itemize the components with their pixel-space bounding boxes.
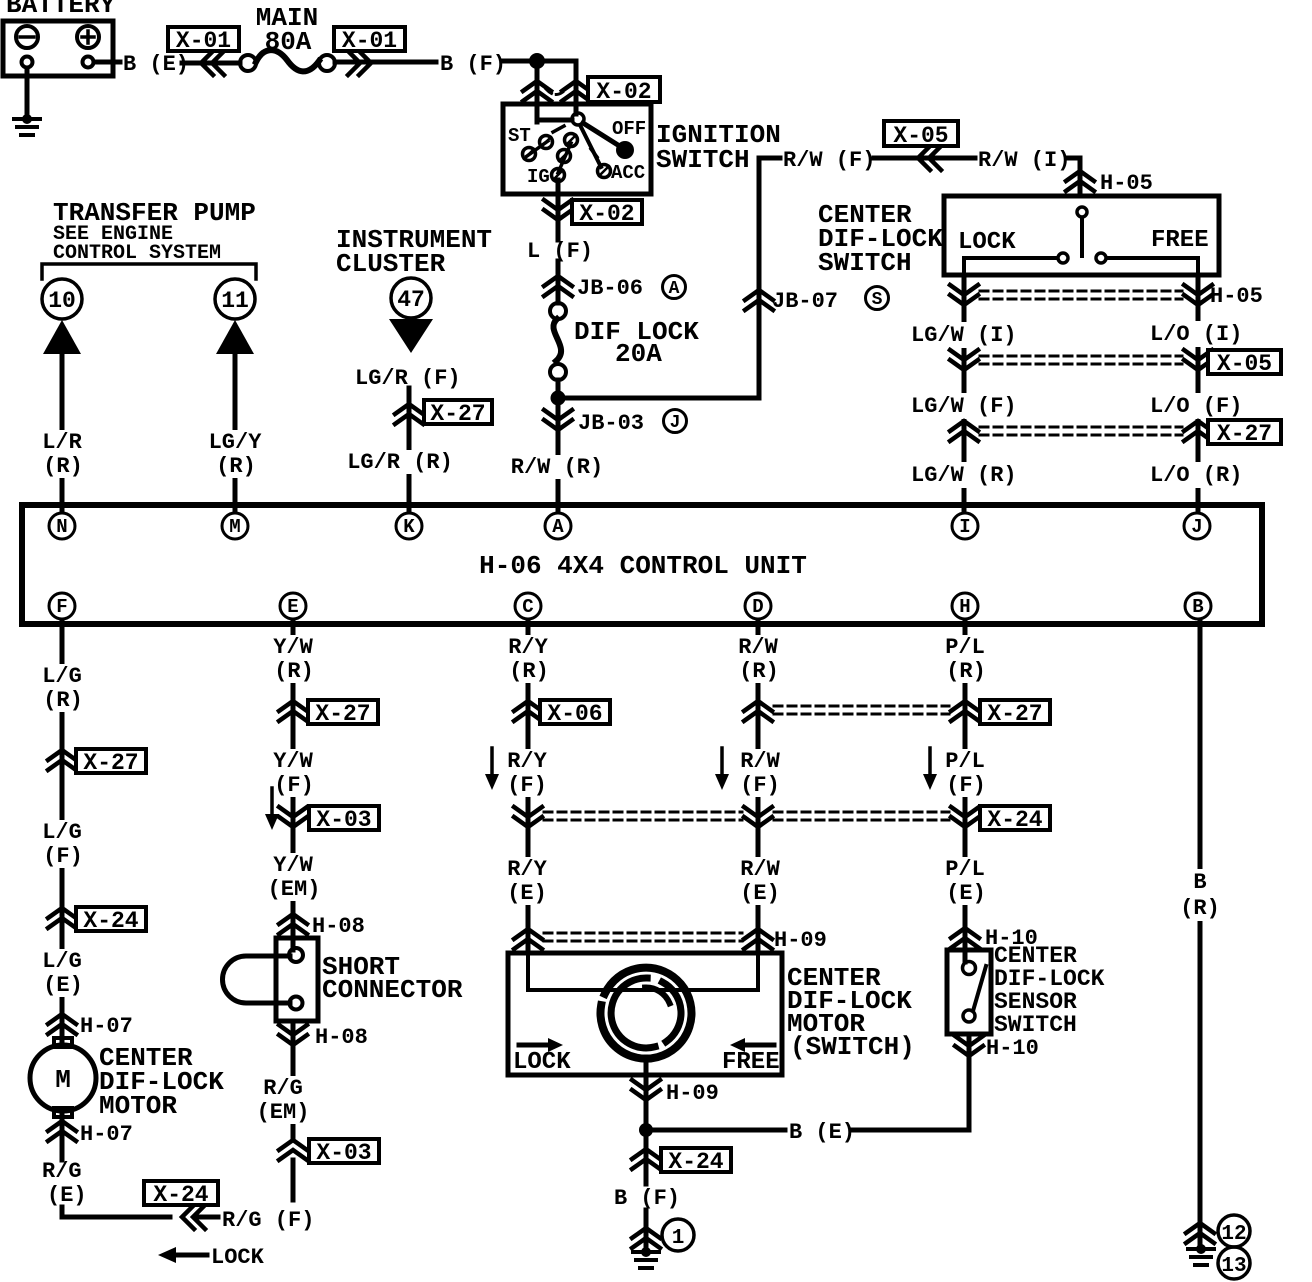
- wire L/O(I) down: [0, 0, 1, 1]
- svg-text:R/Y: R/Y: [508, 635, 548, 660]
- connector H-09 (motor bottom): [632, 1080, 719, 1106]
- wire LG/W(R) segment: [0, 0, 1, 1]
- wire to fuse DIF LOCK: [0, 0, 1, 1]
- label SHORT CONNECTOR: [322, 952, 463, 1005]
- connector 11: [215, 279, 255, 319]
- wire B(E) to fuse: [182, 61, 240, 66]
- connector JB-07 S: [745, 287, 889, 315]
- svg-text:Y/W: Y/W: [273, 635, 313, 660]
- arrow up to 11: [216, 320, 254, 354]
- label CENTER DIF-LOCK SENSOR SWITCH: [994, 943, 1105, 1038]
- wire L/G(F): [0, 0, 1, 1]
- svg-text:X-24: X-24: [987, 807, 1042, 833]
- connector JB-06 A: [544, 276, 686, 302]
- label IGNITION SWITCH: [656, 120, 781, 175]
- arrow LOCK (motor box): [513, 1038, 571, 1076]
- wire LG/R to pin K: [407, 388, 412, 512]
- connector X-03 (R/G wire): [279, 1139, 379, 1166]
- connector pair row2 (C column): [514, 807, 542, 827]
- ground (right): [1188, 1244, 1214, 1265]
- wire to pin J: [0, 0, 1, 1]
- connector X-24 row2 (H column): [951, 806, 1050, 833]
- ground (battery): [14, 114, 40, 135]
- connector X-27 pair (right): [950, 420, 1281, 447]
- wire R/W(I) to dif-lock switch: [1068, 158, 1080, 196]
- ground (center): [633, 1247, 659, 1268]
- wire L/R to pin N: [60, 354, 65, 512]
- connector X-02 (bottom): [544, 200, 642, 227]
- svg-text:X-06: X-06: [547, 701, 602, 727]
- connector X-01 (right): [334, 27, 405, 75]
- dashed pair row1: [774, 706, 949, 714]
- svg-text:X-27: X-27: [315, 701, 370, 727]
- svg-text:H: H: [959, 596, 970, 618]
- label L (F): [527, 239, 593, 264]
- connector ground 1: [632, 1219, 694, 1251]
- label L/G (E): [42, 949, 83, 998]
- svg-text:LG/W (F): LG/W (F): [911, 394, 1017, 419]
- wire LG/W(F) segment: [0, 0, 1, 1]
- motor rotary contact rings: [600, 968, 691, 1059]
- svg-text:H-05: H-05: [1100, 171, 1153, 196]
- pin C: [515, 593, 541, 619]
- wire motor output: [644, 1057, 649, 1148]
- connector H-08 (top): [279, 914, 365, 939]
- arrow down (E column): [265, 788, 279, 830]
- dashed pair row3: [544, 933, 742, 941]
- svg-text:J: J: [670, 413, 681, 433]
- connector H-05 (top): [1066, 171, 1153, 196]
- svg-text:A: A: [552, 516, 564, 538]
- pin A: [545, 513, 571, 539]
- svg-text:H-08: H-08: [312, 914, 365, 939]
- svg-text:H-06 4X4 CONTROL UNIT: H-06 4X4 CONTROL UNIT: [479, 551, 807, 581]
- wire R/G(E) to X-24: [62, 1207, 170, 1217]
- wire Y/W(F): [0, 0, 1, 1]
- dashed pair row2: [544, 812, 949, 820]
- svg-text:IG: IG: [527, 166, 550, 188]
- svg-text:M: M: [229, 516, 240, 538]
- svg-text:11: 11: [221, 288, 249, 314]
- label SEE ENGINE CONTROL SYSTEM: [53, 223, 221, 265]
- label B (E): [123, 52, 189, 77]
- wire to ignition junction: [503, 59, 537, 64]
- connector H-09 (C column): [514, 929, 542, 949]
- svg-text:X-02: X-02: [596, 79, 651, 105]
- wire junction to R/W(F) riser: [558, 158, 780, 398]
- svg-text:X-03: X-03: [316, 807, 371, 833]
- svg-text:X-02: X-02: [579, 201, 634, 227]
- svg-text:SWITCH: SWITCH: [994, 1012, 1077, 1038]
- svg-text:JB-07: JB-07: [772, 289, 838, 314]
- connector X-24 (F column): [48, 907, 146, 934]
- wire B(E) to motor junction: [648, 1128, 785, 1133]
- svg-text:LG/W (R): LG/W (R): [911, 463, 1017, 488]
- svg-text:MOTOR: MOTOR: [99, 1091, 177, 1121]
- connector H-07 (bottom): [48, 1121, 133, 1147]
- label Y/W (F): [273, 749, 314, 798]
- svg-text:LG/W (I): LG/W (I): [911, 323, 1017, 348]
- bracket transfer pump: [42, 264, 256, 279]
- svg-text:P/L: P/L: [945, 857, 985, 882]
- svg-text:X-24: X-24: [668, 1149, 723, 1175]
- svg-text:LG/Y: LG/Y: [209, 430, 263, 455]
- svg-text:LOCK: LOCK: [958, 229, 1016, 256]
- fuse MAIN 80A: [240, 3, 335, 71]
- svg-text:H-07: H-07: [80, 1014, 133, 1039]
- connector X-27 row1 (D column): [744, 701, 772, 721]
- svg-text:H-10: H-10: [986, 1036, 1039, 1061]
- svg-text:(F): (F): [946, 773, 986, 798]
- svg-text:X-24: X-24: [83, 908, 138, 934]
- svg-text:LG/R (R): LG/R (R): [347, 450, 453, 475]
- svg-text:A: A: [669, 279, 680, 299]
- label L/O (I): [1147, 321, 1245, 347]
- label L/O (F): [1147, 393, 1245, 419]
- label R/G (F): [222, 1208, 314, 1233]
- svg-text:CONTROL SYSTEM: CONTROL SYSTEM: [53, 242, 221, 265]
- svg-text:X-27: X-27: [83, 750, 138, 776]
- label R/Y (E): [507, 857, 547, 906]
- svg-text:R/W (R): R/W (R): [511, 455, 603, 480]
- svg-text:(E): (E): [47, 1183, 87, 1208]
- wire battery negative to ground: [25, 68, 30, 119]
- wire fuse output: [556, 380, 561, 398]
- label L/R (R): [42, 430, 83, 479]
- arrow down (C column): [485, 748, 499, 790]
- svg-text:LOCK: LOCK: [513, 1049, 571, 1076]
- svg-text:X-27: X-27: [430, 401, 485, 427]
- svg-text:JB-03: JB-03: [578, 411, 644, 436]
- svg-text:L/R: L/R: [42, 430, 82, 455]
- label LG/W (R): [908, 462, 1020, 488]
- svg-text:B: B: [1192, 596, 1203, 618]
- connector H-09 (D column): [744, 928, 827, 953]
- short connector: [222, 938, 318, 1021]
- svg-text:M: M: [55, 1065, 71, 1095]
- junction B(F) node: [529, 53, 545, 69]
- wire L/O(R) segment: [0, 0, 1, 1]
- wire LG/Y to pin M: [233, 354, 238, 512]
- label LG/Y (R): [209, 430, 263, 479]
- wire R/Y from pin C: [526, 620, 531, 953]
- pin K: [396, 513, 422, 539]
- label R/Y (F): [507, 749, 547, 798]
- arrow down (H column): [923, 748, 937, 790]
- svg-text:R/G (F): R/G (F): [222, 1208, 314, 1233]
- svg-text:CONNECTOR: CONNECTOR: [322, 975, 463, 1005]
- svg-text:R/G: R/G: [42, 1159, 82, 1184]
- label TRANSFER PUMP: [53, 198, 256, 228]
- label CENTER DIF-LOCK MOTOR (SWITCH): [787, 963, 915, 1062]
- label R/Y (R): [508, 635, 549, 684]
- label LG/W (F): [908, 393, 1020, 419]
- svg-text:D: D: [752, 596, 763, 618]
- svg-text:(R): (R): [274, 659, 314, 684]
- junction B(E)/B(F) node: [639, 1123, 653, 1137]
- svg-text:1: 1: [672, 1227, 685, 1250]
- connector X-01 (left): [168, 27, 239, 75]
- connector X-27 (cluster): [395, 400, 492, 427]
- wire B(R) from pin B: [1198, 620, 1203, 1247]
- wire L/G from pin F: [60, 620, 65, 1042]
- connector 47: [391, 278, 431, 318]
- label L/O (R): [1147, 462, 1245, 488]
- connector H-10 (bottom): [955, 1036, 1039, 1061]
- label R/G (E): [42, 1159, 87, 1208]
- svg-text:FREE: FREE: [1151, 227, 1209, 254]
- svg-text:R/W (I): R/W (I): [978, 148, 1070, 173]
- wire IG terminal down: [556, 180, 561, 240]
- svg-text:S: S: [872, 290, 883, 310]
- svg-text:R/W: R/W: [740, 857, 780, 882]
- arrow LOCK (left): [158, 1245, 265, 1270]
- svg-text:H-09: H-09: [774, 928, 827, 953]
- pin B: [1185, 593, 1211, 619]
- battery: [3, 0, 116, 76]
- svg-text:(R): (R): [946, 659, 986, 684]
- svg-text:(E): (E): [740, 881, 780, 906]
- center dif-lock motor switch box: [508, 953, 782, 1075]
- svg-text:K: K: [403, 516, 415, 538]
- svg-text:I: I: [959, 516, 970, 538]
- svg-text:(EM): (EM): [257, 1100, 310, 1125]
- svg-text:L/G: L/G: [42, 664, 82, 689]
- label L/G (F): [42, 820, 83, 869]
- arrow down (D column): [715, 748, 729, 790]
- connector X-05 pair: [950, 350, 1281, 377]
- label R/W (R): [511, 455, 603, 480]
- label CENTER DIF-LOCK MOTOR: [99, 1043, 224, 1121]
- svg-text:(R): (R): [509, 659, 549, 684]
- svg-text:B (E): B (E): [123, 52, 189, 77]
- pin M: [222, 513, 248, 539]
- svg-text:OFF: OFF: [612, 118, 646, 140]
- label B (F): [440, 52, 506, 77]
- svg-text:R/W: R/W: [738, 635, 778, 660]
- wire battery positive to B(E): [94, 60, 120, 65]
- svg-text:(R): (R): [43, 688, 83, 713]
- connector X-03 (E column): [279, 806, 379, 833]
- label CENTER DIF-LOCK SWITCH: [818, 200, 943, 278]
- label P/L (E): [945, 857, 986, 906]
- label LG/R (R): [347, 450, 453, 475]
- arrow up to 10: [43, 320, 81, 354]
- svg-text:X-27: X-27: [987, 701, 1042, 727]
- svg-text:X-01: X-01: [176, 28, 231, 54]
- wire R/G(F) stub: [291, 1160, 296, 1200]
- svg-text:BATTERY: BATTERY: [6, 0, 116, 20]
- connector JB-03 J: [544, 410, 687, 437]
- junction fuse/R-W node: [551, 391, 566, 406]
- svg-text:J: J: [1191, 516, 1202, 538]
- connector X-27 (F column): [48, 749, 146, 776]
- svg-text:(R): (R): [1180, 896, 1220, 921]
- connector H-05 pair below switch: [950, 284, 1263, 309]
- svg-text:SWITCH: SWITCH: [656, 145, 750, 175]
- svg-text:(R): (R): [43, 454, 83, 479]
- svg-text:X-05: X-05: [1217, 351, 1272, 377]
- svg-text:L/G: L/G: [42, 949, 82, 974]
- wire L/O(F) segment: [0, 0, 1, 1]
- svg-text:Y/W: Y/W: [273, 749, 313, 774]
- svg-text:20A: 20A: [615, 339, 662, 369]
- label LG/R (F): [355, 366, 461, 391]
- svg-text:(E): (E): [507, 881, 547, 906]
- wire to L(F): [0, 0, 1, 1]
- connector X-06: [514, 700, 610, 727]
- wire Y/W from pin E: [291, 620, 296, 938]
- label Y/W (R): [273, 635, 314, 684]
- label B (E): [789, 1120, 855, 1145]
- fuse DIF LOCK 20A: [550, 303, 699, 380]
- wire LG/W segment: [962, 276, 967, 512]
- wire R/G(E): [60, 1112, 65, 1160]
- label P/L (R): [945, 635, 986, 684]
- pin D: [745, 593, 771, 619]
- label L/G (R): [42, 664, 83, 713]
- label R/W (E): [740, 857, 780, 906]
- svg-text:L/O (I): L/O (I): [1150, 322, 1242, 347]
- wire R/W from pin D: [756, 620, 761, 953]
- label Y/W (EM): [268, 853, 321, 902]
- svg-text:R/Y: R/Y: [507, 749, 547, 774]
- wire L(F) down: [556, 261, 561, 303]
- control unit H-06 4X4: [22, 505, 1262, 624]
- arrow down from 47: [389, 319, 433, 353]
- svg-text:X-03: X-03: [316, 1140, 371, 1166]
- connector H-07 (top): [48, 1014, 133, 1039]
- wire Y/W(EM): [0, 0, 1, 1]
- svg-text:(R): (R): [739, 659, 779, 684]
- svg-text:H-05: H-05: [1210, 284, 1263, 309]
- wire into short connector: [291, 938, 296, 950]
- svg-text:X-24: X-24: [153, 1182, 208, 1208]
- svg-text:(F): (F): [43, 844, 83, 869]
- svg-text:12: 12: [1221, 1223, 1246, 1246]
- svg-text:(E): (E): [946, 881, 986, 906]
- wire junction into ignition switch: [537, 61, 576, 122]
- label LG/W (I): [908, 322, 1020, 348]
- wire B(F) to ground: [644, 1210, 649, 1250]
- wire P/L from pin H: [963, 620, 968, 962]
- pin H: [952, 593, 978, 619]
- wire B(F): [644, 1148, 649, 1184]
- svg-text:(EM): (EM): [268, 877, 321, 902]
- wire B(F): [335, 60, 436, 65]
- center dif-lock switch SW2: [944, 196, 1219, 276]
- wire LG/W(I) down: [0, 0, 1, 1]
- connector 10: [42, 279, 82, 319]
- svg-text:P/L: P/L: [945, 635, 985, 660]
- pin I: [952, 513, 978, 539]
- svg-text:(F): (F): [740, 773, 780, 798]
- svg-text:P/L: P/L: [945, 749, 985, 774]
- svg-text:X-27: X-27: [1217, 421, 1272, 447]
- svg-text:E: E: [287, 596, 298, 618]
- svg-text:X-01: X-01: [342, 28, 397, 54]
- svg-text:B (F): B (F): [440, 52, 506, 77]
- svg-text:L/G: L/G: [42, 820, 82, 845]
- svg-text:(R): (R): [216, 454, 256, 479]
- connector X-02 (top): [523, 77, 660, 105]
- svg-text:L/O (R): L/O (R): [1150, 463, 1242, 488]
- svg-text:N: N: [56, 516, 67, 538]
- label B (F): [614, 1186, 680, 1211]
- wire R/W(R) to pin A: [556, 398, 561, 512]
- svg-text:B (F): B (F): [614, 1186, 680, 1211]
- connector X-27 row1 (H column): [951, 700, 1050, 727]
- svg-text:(F): (F): [507, 773, 547, 798]
- svg-text:FREE: FREE: [722, 1049, 780, 1076]
- svg-text:(SWITCH): (SWITCH): [790, 1032, 915, 1062]
- svg-text:H-08: H-08: [315, 1025, 368, 1050]
- svg-text:F: F: [56, 596, 67, 618]
- pin J: [1184, 513, 1210, 539]
- wire sensor to B(E): [852, 1034, 969, 1130]
- label B (R): [1180, 869, 1220, 921]
- svg-text:X-05: X-05: [893, 123, 948, 149]
- pin F: [49, 593, 75, 619]
- svg-text:B (E): B (E): [789, 1120, 855, 1145]
- label P/L (F): [945, 749, 986, 798]
- svg-text:(F): (F): [274, 773, 314, 798]
- wire to B junction: [0, 0, 1, 1]
- svg-text:47: 47: [397, 287, 425, 313]
- wire R/W(F) to X-05: [874, 156, 975, 161]
- connector X-27 (E column): [279, 700, 378, 727]
- svg-text:10: 10: [48, 288, 76, 314]
- svg-text:H-07: H-07: [80, 1122, 133, 1147]
- label R/W (I): [978, 148, 1070, 173]
- connector X-24 (B wire): [632, 1148, 731, 1175]
- svg-text:R/W: R/W: [740, 749, 780, 774]
- svg-text:ACC: ACC: [611, 162, 645, 184]
- svg-text:R/G: R/G: [263, 1076, 303, 1101]
- connector X-05: [884, 121, 958, 170]
- svg-text:R/W (F): R/W (F): [783, 148, 875, 173]
- svg-text:13: 13: [1221, 1255, 1246, 1278]
- ignition switch SW1: [503, 104, 651, 194]
- wire to pin I: [0, 0, 1, 1]
- svg-text:B: B: [1193, 870, 1206, 895]
- pin N: [49, 513, 75, 539]
- svg-text:80A: 80A: [265, 27, 312, 57]
- label R/G (EM): [257, 1076, 310, 1125]
- label R/W (F): [740, 749, 780, 798]
- arrow FREE (motor box): [722, 1038, 780, 1076]
- svg-text:JB-06: JB-06: [577, 276, 643, 301]
- connector ground 12/13: [1186, 1215, 1250, 1279]
- pin E: [280, 593, 306, 619]
- svg-text:R/Y: R/Y: [507, 857, 547, 882]
- svg-text:LOCK: LOCK: [211, 1245, 265, 1270]
- svg-text:(E): (E): [43, 973, 83, 998]
- label INSTRUMENT CLUSTER: [336, 225, 492, 279]
- svg-text:L/O (F): L/O (F): [1150, 394, 1242, 419]
- svg-text:SWITCH: SWITCH: [818, 248, 912, 278]
- wire L/O segment: [1196, 276, 1201, 512]
- wire R/G(EM): [291, 1045, 296, 1138]
- connector X-24 (R/G wire): [144, 1181, 218, 1229]
- center dif-lock sensor switch SW3: [947, 950, 991, 1034]
- svg-text:C: C: [522, 596, 533, 618]
- label R/W (R): [738, 635, 779, 684]
- svg-text:CLUSTER: CLUSTER: [336, 249, 446, 279]
- svg-text:H-09: H-09: [666, 1081, 719, 1106]
- motor M center dif-lock: [30, 1038, 96, 1117]
- connector H-08 (bottom): [279, 1021, 368, 1050]
